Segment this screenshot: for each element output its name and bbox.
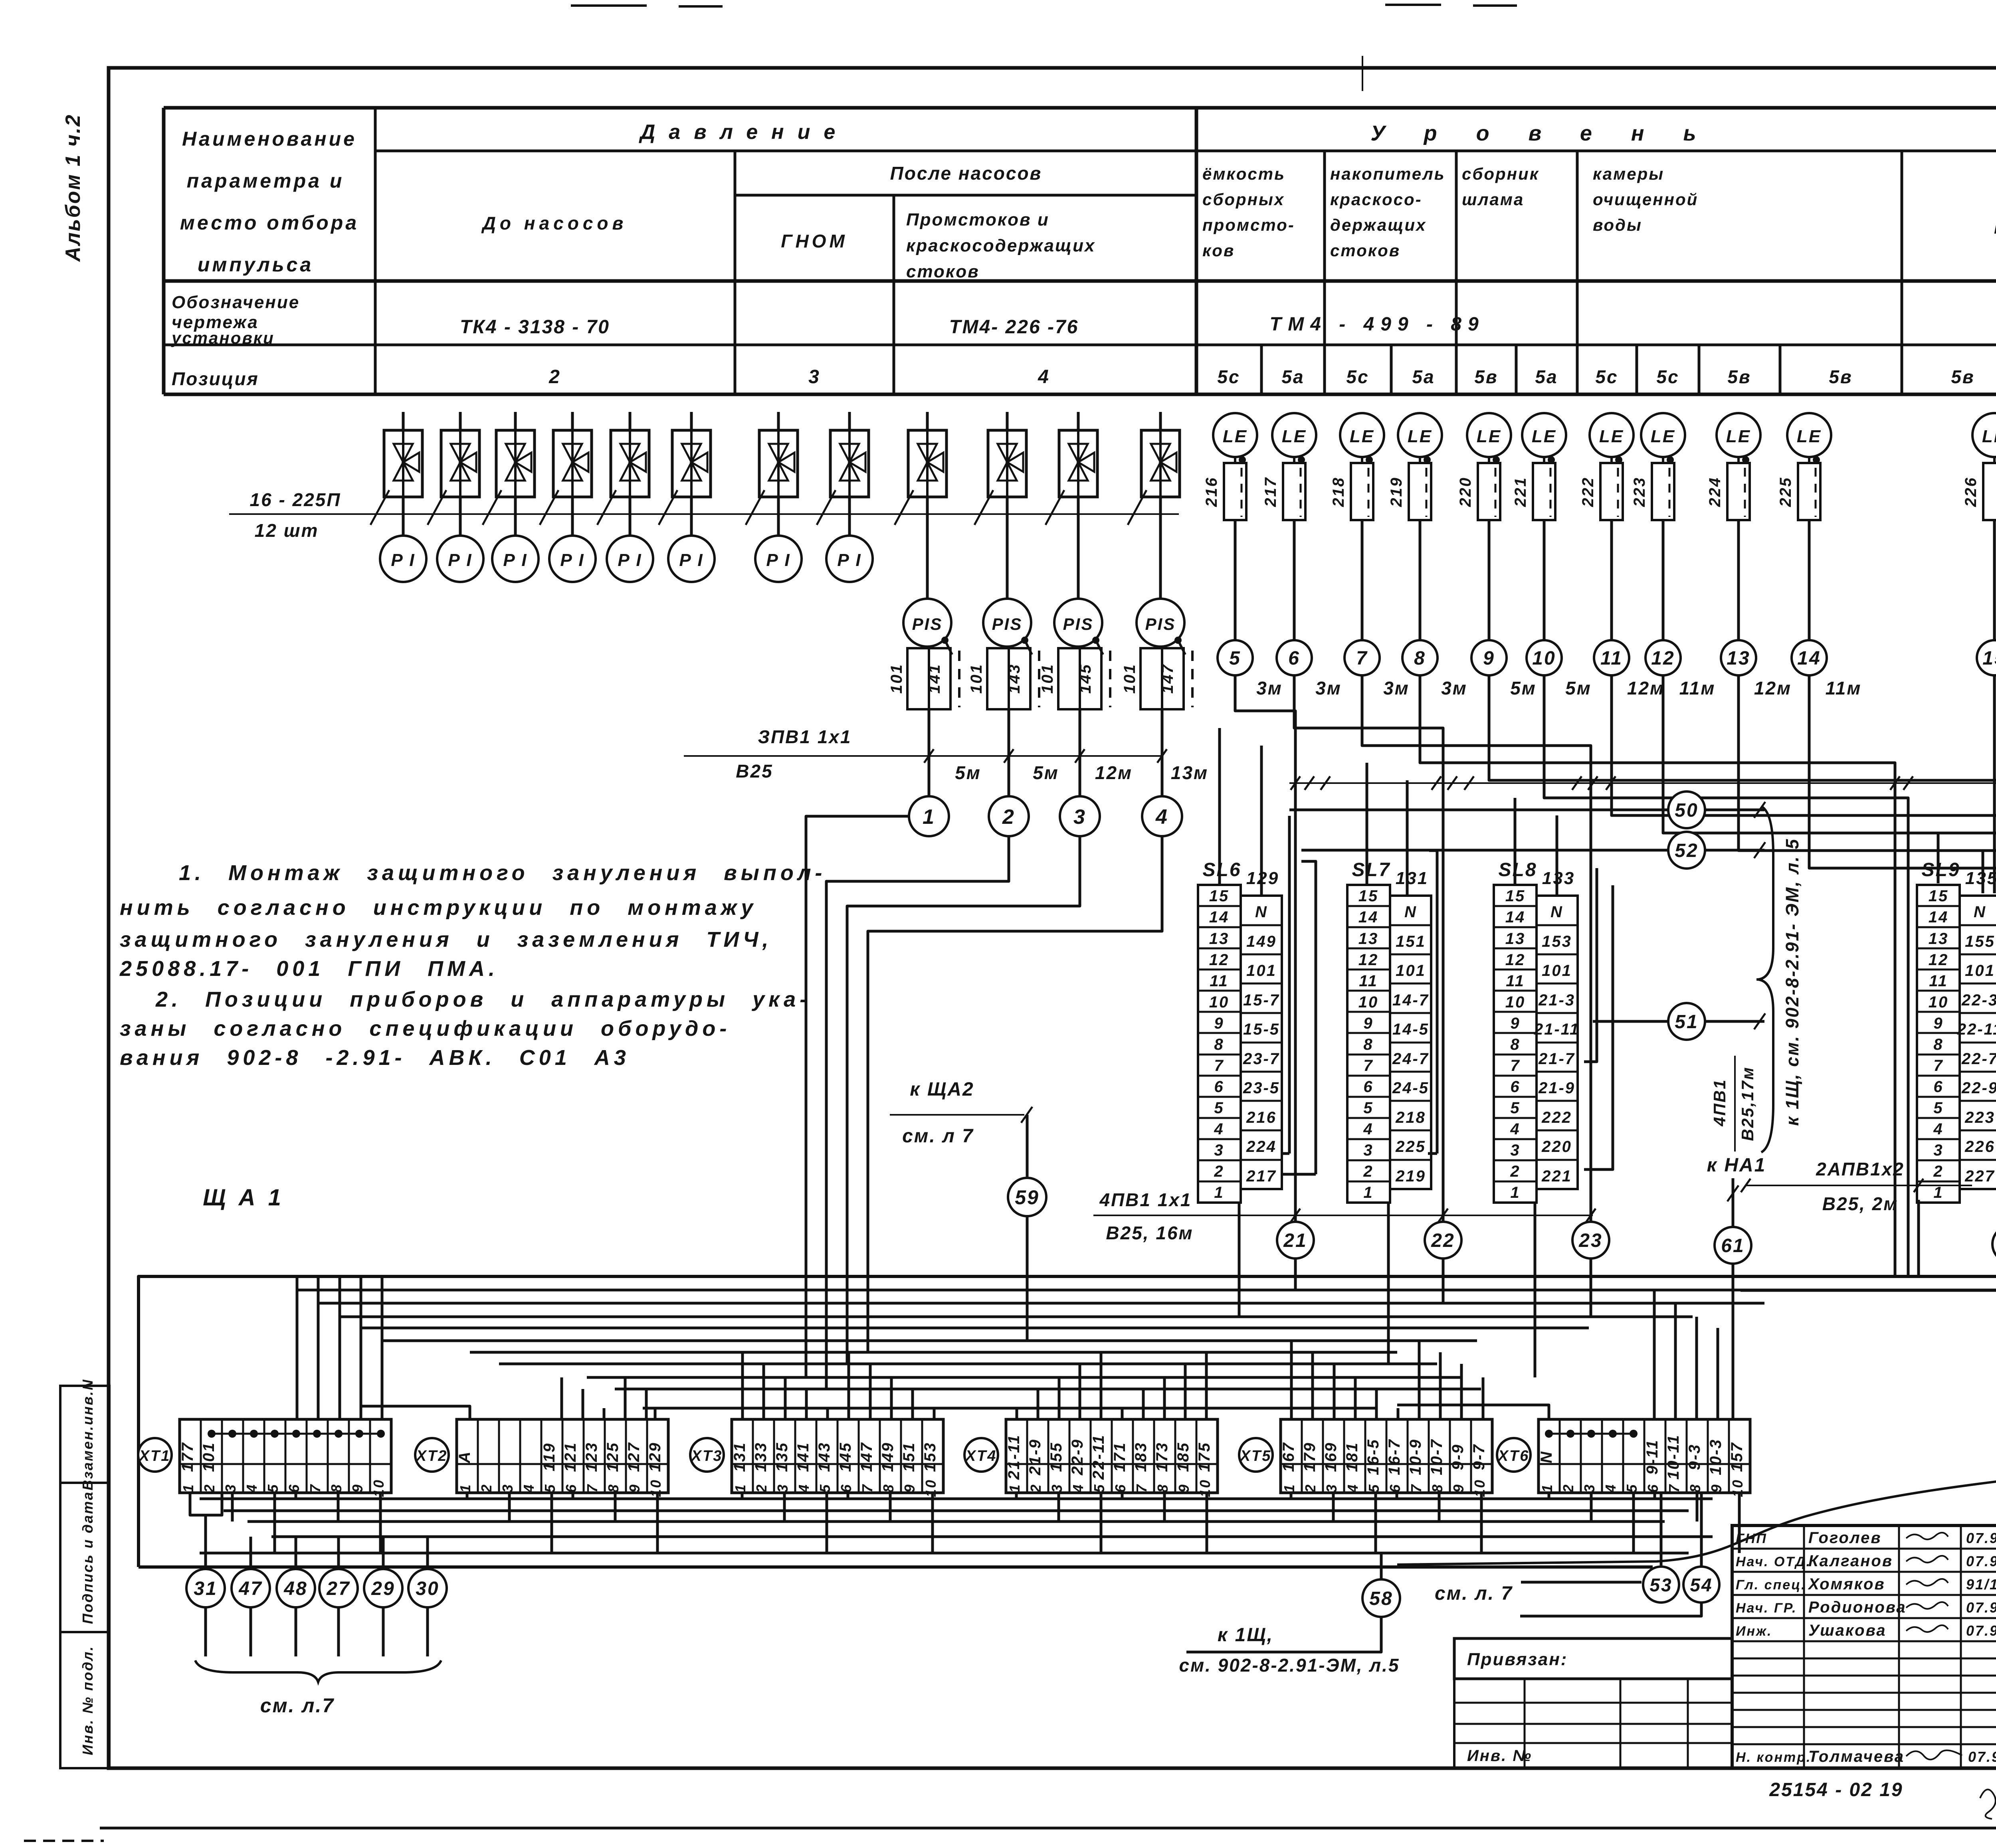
- wire 54 up: [1700, 1493, 1703, 1567]
- svg-text:5: 5: [1214, 1099, 1224, 1117]
- svg-text:145: 145: [1077, 663, 1094, 694]
- svg-text:15: 15: [1209, 887, 1230, 905]
- svg-text:стоков: стоков: [1330, 241, 1400, 260]
- привязан box: [1454, 1638, 1732, 1679]
- svg-text:22-3: 22-3: [1961, 991, 1996, 1009]
- svg-text:9: 9: [1450, 1483, 1467, 1492]
- valve V3 symbol: [506, 444, 531, 481]
- wire to XT5: [1439, 1352, 1442, 1419]
- svg-text:3: 3: [499, 1483, 516, 1492]
- svg-text:10: 10: [1197, 1479, 1213, 1497]
- LE10 electrode: [1798, 463, 1820, 520]
- svg-text:101: 101: [968, 663, 985, 694]
- svg-text:23-5: 23-5: [1243, 1079, 1280, 1097]
- svg-text:Привязан:: Привязан:: [1467, 1650, 1568, 1669]
- svg-text:22-9: 22-9: [1069, 1438, 1086, 1476]
- svg-text:3м: 3м: [1256, 678, 1283, 698]
- svg-text:11: 11: [1929, 972, 1948, 990]
- wire SL8 220 up: [1584, 885, 1613, 1169]
- table bottom: [164, 393, 1996, 396]
- svg-text:2: 2: [753, 1483, 770, 1493]
- signature: [1906, 1625, 1948, 1632]
- svg-text:Взамен.инв.N: Взамен.инв.N: [79, 1379, 96, 1490]
- svg-text:8: 8: [1933, 1036, 1943, 1053]
- valve V7 stem top: [777, 412, 780, 430]
- svg-text:Уровень: Уровень: [1370, 121, 1735, 145]
- svg-text:5: 5: [1510, 1099, 1520, 1117]
- wire below 27: [337, 1607, 340, 1656]
- node 10: [1527, 640, 1562, 675]
- svg-text:24-5: 24-5: [1392, 1079, 1429, 1097]
- svg-text:LE: LE: [1282, 427, 1307, 446]
- svg-text:59: 59: [1015, 1186, 1040, 1209]
- valve V4 symbol: [563, 444, 588, 481]
- svg-text:3: 3: [774, 1483, 791, 1492]
- svg-text:см. л 7: см. л 7: [902, 1126, 974, 1147]
- wire LE5 down: [1488, 520, 1491, 640]
- wire PIS1 down: [928, 709, 931, 756]
- svg-text:3: 3: [1214, 1142, 1224, 1159]
- wire XT bottom stub: [1121, 1493, 1124, 1499]
- LE3 stem: [1361, 457, 1363, 463]
- node 8: [1402, 640, 1438, 675]
- svg-text:держащих: держащих: [1330, 216, 1427, 234]
- wire SL8 feed: [1514, 798, 1517, 885]
- svg-text:2: 2: [1302, 1483, 1319, 1493]
- svg-text:В25,17м: В25,17м: [1738, 1066, 1757, 1141]
- svg-text:91/1: 91/1: [1966, 1576, 1996, 1593]
- svg-text:5: 5: [1366, 1483, 1382, 1492]
- ХТ1 jumper dot: [271, 1430, 279, 1438]
- svg-text:222: 222: [1541, 1109, 1572, 1126]
- node 14: [1792, 640, 1827, 675]
- svg-text:нить согласно инструкции: нить согласно инструкции по монтажу: [120, 896, 757, 920]
- svg-text:151: 151: [1396, 933, 1426, 950]
- LE4 dot: [1424, 456, 1431, 463]
- svg-text:223: 223: [1964, 1109, 1995, 1126]
- valve V9 body: [908, 430, 947, 497]
- label circle ХТ6: [1497, 1438, 1531, 1472]
- ХТ1 jumper dot: [335, 1430, 343, 1438]
- svg-text:5м: 5м: [1033, 762, 1059, 783]
- wire bus: [643, 1407, 1377, 1410]
- wire to XT3: [933, 1408, 936, 1419]
- svg-text:131: 131: [731, 1442, 748, 1472]
- svg-text:10: 10: [1505, 993, 1526, 1011]
- wire valve to PI2: [459, 497, 462, 536]
- terminal block SL8 left column: [1494, 885, 1537, 1203]
- svg-text:9: 9: [901, 1483, 918, 1492]
- valve V11 body: [1059, 430, 1097, 497]
- svg-text:1: 1: [1006, 1483, 1023, 1492]
- wire 9: [1489, 675, 1996, 1211]
- svg-text:3: 3: [222, 1483, 239, 1492]
- svg-text:101: 101: [1965, 962, 1995, 979]
- svg-text:5: 5: [1933, 1099, 1943, 1117]
- svg-text:вания 902-8 -2.91- АВК. С0: вания 902-8 -2.91- АВК. С01 А3: [120, 1046, 630, 1070]
- LE9 stem: [1737, 457, 1740, 463]
- node 58: [1362, 1579, 1400, 1617]
- ХТ6 jumper dot: [1587, 1430, 1595, 1438]
- wire to 48: [295, 1537, 297, 1570]
- node 15: [1977, 640, 1996, 675]
- PIS1 tap dot: [941, 637, 948, 644]
- valve V10 leader: [974, 490, 993, 525]
- svg-text:223: 223: [1631, 477, 1648, 507]
- LE4 stem: [1419, 457, 1421, 463]
- wire to XT3: [890, 1377, 893, 1419]
- svg-text:защитного зануления и заз: защитного зануления и заземления ТИЧ,: [120, 928, 772, 952]
- svg-text:7: 7: [1666, 1483, 1682, 1492]
- LE8 stem: [1662, 457, 1664, 463]
- node 6: [1277, 640, 1312, 675]
- S-curve lead-out: [1397, 1329, 1996, 1565]
- signature: [1906, 1556, 1948, 1563]
- svg-text:23-7: 23-7: [1243, 1050, 1280, 1068]
- svg-text:3: 3: [1049, 1483, 1065, 1492]
- svg-text:21-11: 21-11: [1005, 1434, 1023, 1480]
- ХТ6 jumper dot: [1566, 1430, 1574, 1438]
- svg-text:175: 175: [1196, 1442, 1213, 1472]
- svg-text:147: 147: [1159, 663, 1176, 694]
- ХТ1 jumper dot: [292, 1430, 300, 1438]
- svg-text:101: 101: [1542, 962, 1572, 979]
- svg-text:7: 7: [1133, 1483, 1150, 1492]
- svg-text:ГНП: ГНП: [1736, 1531, 1767, 1546]
- wire 14: [1809, 675, 1996, 1179]
- LE3 electrode: [1351, 463, 1373, 520]
- wire XT bottom stub: [1057, 1493, 1060, 1522]
- instrument LE2: [1272, 413, 1316, 457]
- valve V7 leader: [746, 490, 764, 525]
- LE5 stem: [1488, 457, 1490, 463]
- svg-text:14: 14: [1505, 908, 1526, 926]
- svg-text:6: 6: [286, 1483, 302, 1492]
- svg-text:9-9: 9-9: [1449, 1444, 1467, 1470]
- svg-text:219: 219: [1395, 1167, 1426, 1185]
- label circle ХТ1: [138, 1438, 172, 1472]
- svg-text:6: 6: [1214, 1078, 1224, 1096]
- ХТ6 jumper dot: [1545, 1430, 1553, 1438]
- panel ЩА1 bottom: [139, 1565, 1653, 1569]
- PIS1 box value: [929, 648, 950, 709]
- svg-text:N: N: [1538, 1450, 1555, 1463]
- svg-text:217: 217: [1246, 1167, 1277, 1185]
- table line: [164, 344, 1996, 346]
- fold mark: [1362, 56, 1363, 91]
- LE8 electrode: [1652, 463, 1674, 520]
- node 61: [1715, 1227, 1751, 1264]
- svg-text:3: 3: [1073, 805, 1086, 829]
- brace к 1Щ: [1756, 806, 1773, 1152]
- wire to XT5: [1482, 1377, 1485, 1419]
- svg-text:221: 221: [1541, 1167, 1572, 1185]
- wire to XT3: [911, 1389, 914, 1419]
- node 11: [1594, 640, 1629, 675]
- wire LE7 down: [1610, 520, 1613, 640]
- svg-text:123: 123: [583, 1442, 600, 1472]
- svg-text:Н. контр.: Н. контр.: [1736, 1750, 1811, 1765]
- table top: [164, 106, 1996, 110]
- svg-text:101: 101: [1039, 663, 1056, 694]
- wire LE2 down: [1293, 520, 1296, 640]
- svg-text:4: 4: [1038, 366, 1050, 388]
- svg-text:краскосо-: краскосо-: [1330, 190, 1422, 209]
- svg-text:2: 2: [1560, 1483, 1576, 1493]
- valve V8 stem top: [848, 412, 851, 430]
- wire to XT3: [869, 1364, 872, 1419]
- svg-text:11: 11: [1210, 972, 1229, 990]
- wire to XT4: [1121, 1408, 1124, 1419]
- wire lower bus: [248, 1520, 1665, 1523]
- svg-text:1: 1: [1933, 1184, 1943, 1201]
- svg-text:9: 9: [1708, 1483, 1725, 1492]
- svg-text:2: 2: [478, 1483, 495, 1493]
- wire XT bottom stub: [550, 1493, 553, 1553]
- cable line 2АПВ1х2: [1746, 1185, 1972, 1186]
- svg-text:14: 14: [1797, 648, 1821, 669]
- svg-text:1: 1: [1281, 1483, 1297, 1492]
- wire: [571, 4, 647, 7]
- svg-text:173: 173: [1153, 1442, 1171, 1472]
- LE5 electrode: [1478, 463, 1500, 520]
- instrument PI3: [492, 536, 539, 582]
- svg-text:Альбом 1 ч.2: Альбом 1 ч.2: [61, 114, 85, 263]
- terminal block SL9 right column: [1960, 896, 1996, 1189]
- svg-text:5в: 5в: [1951, 366, 1974, 387]
- cable line 2ПВ1: [1289, 782, 1996, 784]
- svg-text:4: 4: [1933, 1120, 1943, 1138]
- wire 4 to panel: [868, 836, 1162, 1352]
- wire 58 к 1Щ: [1186, 1617, 1381, 1652]
- instrument PI2: [437, 536, 483, 582]
- svg-text:4: 4: [244, 1483, 260, 1493]
- svg-text:143: 143: [1006, 663, 1023, 694]
- ХТ6 jumper bus: [1549, 1433, 1634, 1435]
- table v: [893, 195, 895, 394]
- instrument LE8: [1641, 413, 1685, 457]
- wire bus 24: [1741, 1289, 1996, 1292]
- wire to XT4: [1205, 1352, 1208, 1419]
- instrument LE4: [1398, 413, 1442, 457]
- svg-text:3м: 3м: [1441, 678, 1467, 698]
- LE7 dot: [1615, 456, 1622, 463]
- valve V8 body: [830, 430, 869, 497]
- wire XT bottom stub: [1480, 1493, 1483, 1553]
- svg-text:183: 183: [1132, 1442, 1150, 1472]
- PIS4 dashed: [1191, 651, 1194, 707]
- svg-text:61: 61: [1721, 1235, 1745, 1256]
- wire: [100, 1827, 1996, 1830]
- svg-text:21-9: 21-9: [1538, 1079, 1575, 1097]
- svg-text:Давление: Давление: [639, 121, 849, 144]
- wire to XT4: [1163, 1377, 1166, 1419]
- table line: [735, 194, 1196, 197]
- svg-text:8: 8: [328, 1483, 345, 1492]
- valve V5 body: [611, 430, 649, 497]
- valve V6 symbol: [682, 444, 707, 481]
- svg-text:Позиция: Позиция: [172, 368, 259, 389]
- svg-text:10: 10: [1532, 648, 1556, 669]
- wire valve to PIS4: [1159, 497, 1162, 599]
- wire bus: [318, 1302, 1764, 1305]
- wire to XT3: [848, 1352, 850, 1419]
- wire XT bottom stub: [1590, 1493, 1593, 1522]
- wire valve to PI7: [777, 497, 780, 536]
- node 50: [1668, 791, 1705, 828]
- svg-text:216: 216: [1203, 477, 1220, 507]
- svg-text:153: 153: [1542, 933, 1572, 950]
- svg-text:181: 181: [1343, 1442, 1361, 1472]
- svg-text:6: 6: [563, 1483, 579, 1492]
- wire to XT4: [1058, 1377, 1061, 1419]
- valve V4 body: [553, 430, 592, 497]
- valve V8 symbol: [840, 444, 865, 481]
- svg-text:11: 11: [1359, 972, 1378, 990]
- svg-text:216: 216: [1246, 1109, 1277, 1126]
- wire 3 to panel: [847, 836, 1080, 1364]
- cable line ЗПВ1: [684, 755, 1162, 757]
- svg-text:4: 4: [1510, 1120, 1520, 1138]
- svg-text:8: 8: [1154, 1483, 1171, 1492]
- svg-text:12м: 12м: [1754, 678, 1792, 698]
- node 23: [1572, 1222, 1609, 1258]
- wire to XT4: [1037, 1389, 1040, 1419]
- svg-text:14: 14: [1209, 908, 1230, 926]
- svg-text:До насосов: До насосов: [481, 213, 628, 233]
- svg-text:SL8: SL8: [1498, 859, 1537, 880]
- wire to XT5: [1311, 1352, 1314, 1419]
- svg-text:установки: установки: [171, 328, 275, 347]
- PIS4 tap line: [1178, 640, 1185, 655]
- svg-text:N: N: [1974, 903, 1986, 921]
- svg-text:8: 8: [605, 1483, 622, 1492]
- привязан line: [1454, 1723, 1732, 1725]
- svg-text:219: 219: [1388, 477, 1405, 507]
- wire valve to PI5: [629, 497, 632, 536]
- svg-text:11м: 11м: [1826, 678, 1862, 698]
- wire below 47: [249, 1607, 252, 1656]
- PIS2 dashed: [1038, 651, 1040, 707]
- svg-text:2: 2: [1214, 1163, 1224, 1180]
- wire to XT2-1: [361, 1406, 470, 1419]
- wire to XT6 N: [1397, 1405, 1549, 1419]
- wire to XT5: [1290, 1341, 1293, 1419]
- svg-text:218: 218: [1330, 477, 1347, 507]
- svg-text:LE: LE: [1408, 427, 1432, 446]
- svg-text:25154 - 02 19: 25154 - 02 19: [1769, 1779, 1903, 1801]
- svg-text:21-11: 21-11: [1534, 1021, 1580, 1038]
- wire SL9 feed: [1937, 833, 1940, 883]
- brace см.л.7: [195, 1660, 441, 1682]
- svg-text:2: 2: [1028, 1483, 1044, 1493]
- svg-text:очищенной: очищенной: [1593, 190, 1698, 209]
- svg-text:9-7: 9-7: [1470, 1444, 1488, 1470]
- wire bus: [499, 1363, 1437, 1365]
- wire bus: [297, 1289, 1996, 1292]
- svg-text:218: 218: [1395, 1109, 1426, 1126]
- svg-text:4: 4: [1070, 1483, 1086, 1493]
- valve V2 leader: [428, 490, 446, 525]
- LE8 dot: [1667, 456, 1674, 463]
- svg-text:7: 7: [307, 1483, 323, 1492]
- svg-text:ТК4 - 3138 - 70: ТК4 - 3138 - 70: [460, 317, 610, 338]
- PIS3 tap line: [1096, 640, 1103, 655]
- LE2 stem: [1293, 457, 1295, 463]
- wire to 31: [204, 1515, 207, 1570]
- svg-text:220: 220: [1457, 477, 1474, 507]
- LE9 electrode: [1727, 463, 1750, 520]
- PIS2 box value: [1009, 648, 1030, 709]
- svg-text:155: 155: [1048, 1442, 1065, 1472]
- svg-text:225: 225: [1395, 1138, 1426, 1155]
- node 59: [1008, 1178, 1046, 1216]
- svg-text:ЗПВ1 1х1: ЗПВ1 1х1: [758, 726, 852, 747]
- svg-text:12: 12: [1505, 951, 1526, 969]
- svg-text:ГНОМ: ГНОМ: [781, 231, 848, 251]
- svg-text:5с: 5с: [1217, 366, 1240, 387]
- svg-text:225: 225: [1777, 477, 1794, 507]
- svg-text:4: 4: [1602, 1483, 1619, 1493]
- svg-text:2: 2: [1363, 1163, 1373, 1180]
- svg-text:101: 101: [1121, 663, 1139, 694]
- svg-text:место отбора: место отбора: [180, 212, 359, 234]
- wire to XT3: [762, 1364, 765, 1419]
- wire SL9 N feed: [1982, 851, 1984, 893]
- svg-text:накопитель: накопитель: [1330, 164, 1446, 183]
- svg-text:5с: 5с: [1595, 366, 1618, 387]
- LE5 dot: [1493, 456, 1500, 463]
- wire to 52: [1301, 849, 1668, 852]
- ХТ1 jumper dot: [208, 1430, 216, 1438]
- svg-text:13м: 13м: [1171, 762, 1208, 783]
- valve V1 stem top: [402, 412, 405, 430]
- instrument LE11: [1972, 413, 1996, 457]
- wire to XT2: [582, 1389, 584, 1419]
- svg-text:13: 13: [1505, 930, 1526, 948]
- svg-text:3м: 3м: [1383, 678, 1410, 698]
- signature: [1906, 1750, 1962, 1759]
- instrument PI7: [755, 536, 802, 582]
- svg-text:Калганов: Калганов: [1808, 1552, 1893, 1570]
- svg-text:10: 10: [1209, 993, 1230, 1011]
- svg-text:P I: P I: [391, 550, 415, 570]
- PIS4 box value: [1162, 648, 1184, 709]
- ХТ6 jumper dot: [1609, 1430, 1617, 1438]
- svg-text:5м: 5м: [955, 762, 981, 783]
- panel ЩА1 outline: [139, 1276, 1996, 1567]
- svg-text:к ЩА2: к ЩА2: [910, 1079, 974, 1100]
- LE9 dot: [1742, 456, 1749, 463]
- svg-text:8: 8: [880, 1483, 897, 1492]
- svg-text:13: 13: [1929, 930, 1949, 948]
- terminal block SL6 right column: [1241, 896, 1282, 1189]
- wire to XT2: [560, 1377, 563, 1419]
- valve V11 stem top: [1077, 412, 1080, 430]
- svg-text:LE: LE: [1726, 427, 1751, 446]
- instrument LE3: [1340, 413, 1384, 457]
- valve V9 stem top: [926, 412, 929, 430]
- svg-text:127: 127: [625, 1442, 643, 1472]
- wire valve to PIS2: [1006, 497, 1009, 599]
- wire XT bottom stub: [508, 1493, 511, 1522]
- PIS3 dashed: [1109, 651, 1111, 707]
- svg-text:сборник: сборник: [1462, 164, 1539, 183]
- svg-text:135: 135: [1965, 869, 1996, 888]
- margin box inv: [60, 1632, 109, 1768]
- node 24: [1992, 1226, 1996, 1262]
- svg-text:7: 7: [584, 1483, 600, 1492]
